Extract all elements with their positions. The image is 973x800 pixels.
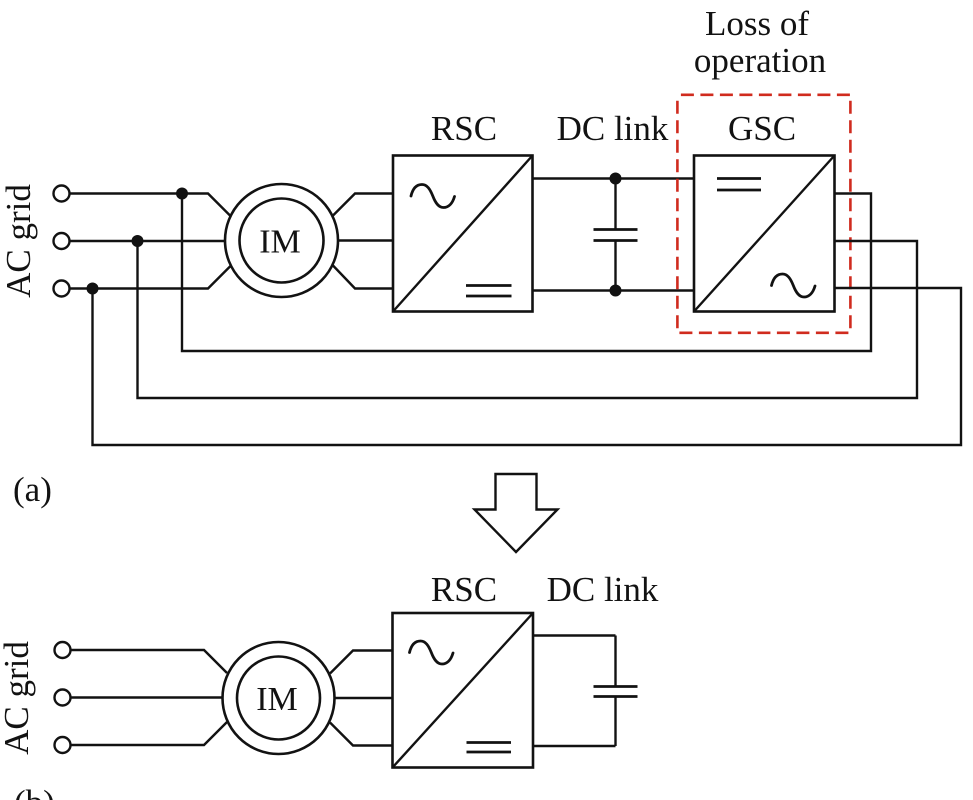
wire DC link bottom (a) [533, 289, 695, 291]
svg-text:(a): (a) [13, 470, 52, 509]
capacitor C DC link (a) [594, 179, 638, 291]
wire DC link top (a) [533, 177, 695, 179]
svg-text:RSC: RSC [431, 109, 497, 148]
wire GSC return phase 3 [93, 288, 962, 445]
node dot phase 2 [132, 235, 144, 247]
wire DC link bottom (b) [533, 745, 616, 747]
wire phase 2 left (b) [71, 696, 224, 698]
wire DC link top (b) [533, 634, 616, 636]
terminal A3 [54, 281, 70, 297]
node dot DC link top [610, 173, 622, 185]
svg-text:DC link: DC link [557, 109, 669, 148]
svg-text:(b): (b) [14, 783, 55, 800]
svg-text:RSC: RSC [431, 570, 497, 609]
wire phase 2 left (a) [70, 240, 227, 242]
wire IM to RSC phase 1 (b) [330, 651, 393, 674]
svg-text:AC grid: AC grid [0, 184, 38, 298]
node dot phase 1 [176, 188, 188, 200]
terminal B2 [55, 690, 71, 706]
svg-text:IM: IM [259, 224, 301, 261]
wire phase 1 left (b) [71, 650, 228, 673]
converter RSC (b) [393, 613, 534, 768]
terminal B3 [55, 737, 71, 753]
converter GSC (a) [694, 156, 835, 312]
svg-text:GSC: GSC [728, 109, 796, 148]
block arrow down [475, 474, 558, 552]
induction machine IM (b) [223, 642, 335, 754]
wire phase 1 left (a) [70, 194, 231, 217]
wire IM to RSC phase 1 [333, 194, 394, 217]
terminal B1 [55, 642, 71, 658]
node dot phase 3 [87, 283, 99, 295]
svg-text:DC link: DC link [547, 570, 659, 609]
capacitor C DC link (b) [594, 636, 638, 747]
node dot DC link bottom [610, 285, 622, 297]
svg-text:operation: operation [694, 41, 826, 80]
svg-text:AC grid: AC grid [0, 641, 36, 755]
svg-text:Loss of: Loss of [705, 4, 809, 43]
dashed fault box around GSC [677, 95, 850, 333]
wire phase 3 left (b) [71, 722, 228, 745]
svg-text:IM: IM [256, 681, 298, 718]
wire IM to RSC phase 3 (b) [330, 723, 393, 746]
wire GSC return phase 1 [182, 194, 871, 352]
wire IM to RSC phase 3 [333, 265, 394, 289]
wire IM to RSC phase 2 (b) [335, 697, 393, 699]
wire GSC return phase 2 [138, 241, 918, 398]
wire phase 3 left (a) [70, 266, 231, 289]
terminal A1 [54, 186, 70, 202]
converter RSC (a) [393, 156, 533, 312]
induction machine IM (a) [225, 184, 338, 297]
terminal A2 [54, 233, 70, 249]
wire IM to RSC phase 2 [338, 239, 394, 241]
